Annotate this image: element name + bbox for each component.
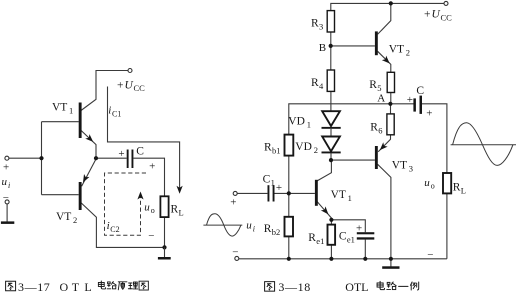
svg-text:VT: VT — [331, 189, 346, 201]
svg-text:VT: VT — [389, 44, 404, 56]
svg-text:3: 3 — [319, 22, 323, 32]
wire: RL bottom to ground node — [164, 217, 166, 247]
wire: VT1 base — [42, 121, 79, 123]
svg-text:VD: VD — [288, 115, 305, 127]
svg-text:4: 4 — [319, 81, 324, 91]
resistor R6 box — [387, 114, 394, 135]
wire: Rb1 to C1 node — [288, 156, 290, 194]
transistor VT2 emitter arrow (PNP, into bar) — [80, 174, 89, 184]
resistor R4 box — [327, 70, 334, 91]
transistor VT3 emitter arrow (PNP, into bar) — [378, 142, 388, 152]
svg-text:−: − — [427, 249, 433, 261]
wire: emitter node to Re1 — [330, 220, 332, 225]
svg-text:C: C — [416, 85, 424, 97]
svg-text:U: U — [125, 79, 134, 91]
wire: VT1r emitter — [317, 201, 332, 220]
svg-text:1: 1 — [348, 193, 352, 203]
svg-text:R: R — [311, 77, 319, 89]
svg-text:+: + — [3, 162, 9, 174]
node: B — [329, 44, 333, 48]
svg-text:i: i — [8, 181, 10, 190]
terminal: left ui + — [5, 156, 9, 160]
svg-text:u: u — [424, 177, 430, 189]
terminal: right input minus — [235, 256, 239, 260]
transistor VT1 bar — [79, 103, 82, 139]
wire: bottom rail — [239, 258, 447, 260]
svg-text:VT: VT — [392, 160, 407, 172]
resistor R3 box — [327, 11, 334, 32]
wire: cap C to RL right — [422, 104, 447, 173]
capacitor Ce1 plates — [357, 232, 375, 234]
resistor Rb1 box — [285, 135, 294, 156]
capacitor C right plates — [413, 98, 416, 111]
wire: emitter node to Ce1 — [331, 220, 365, 233]
wire: node A to R6 — [390, 104, 392, 114]
svg-text:i: i — [108, 105, 111, 117]
wire: input to C1 — [237, 192, 267, 194]
node: diode bottom junction — [329, 158, 333, 162]
svg-text:B: B — [319, 42, 326, 54]
svg-text:3: 3 — [409, 164, 413, 174]
capacitor C left: plates — [127, 150, 129, 169]
svg-text:u: u — [144, 202, 150, 214]
node: top rail junction — [389, 1, 393, 5]
svg-text:VT: VT — [52, 102, 67, 114]
svg-text:o: o — [431, 182, 435, 191]
svg-text:e1: e1 — [347, 235, 355, 245]
transistor VT2 right emitter arrow — [382, 56, 392, 66]
caption: figure 3-18 — [265, 282, 275, 292]
wire: left input to base node — [9, 157, 42, 159]
transistor VT1 emitter arrow — [85, 134, 95, 144]
svg-text:i: i — [107, 220, 110, 232]
wire: C1 node to Rb2 — [288, 193, 290, 216]
node: Ce1 rail junction — [363, 257, 367, 261]
svg-text:O: O — [60, 280, 69, 294]
wire: RL right to rail — [446, 194, 448, 259]
transistor VT2 bar — [79, 182, 82, 210]
diode VD2 — [322, 137, 340, 152]
svg-text:+: + — [356, 222, 362, 234]
resistor RL right box — [443, 173, 451, 193]
wire: VT1 collector to +Ucc rail — [81, 71, 128, 111]
svg-text:e1: e1 — [316, 236, 324, 246]
svg-text:CC: CC — [441, 12, 453, 22]
svg-text:+: + — [230, 197, 236, 209]
svg-text:R: R — [453, 182, 461, 194]
svg-text:R: R — [264, 142, 272, 154]
resistor Rb2 box — [285, 217, 294, 237]
svg-text:C: C — [136, 146, 144, 158]
transistor VT1 right bar — [315, 180, 318, 206]
transistor VT1 right emitter arrow — [321, 206, 331, 216]
wire: VT2 base — [42, 194, 79, 196]
node: emitters junction — [94, 156, 98, 160]
svg-text:+: + — [276, 182, 282, 194]
resistor R5 box — [387, 72, 394, 92]
wire: node A bus to Rb1 corner — [289, 104, 391, 135]
svg-text:+: + — [407, 94, 413, 106]
svg-text:T: T — [72, 280, 80, 294]
node: bases junction — [39, 156, 43, 160]
svg-text:2: 2 — [406, 48, 410, 58]
svg-text:i: i — [253, 225, 255, 234]
node: Re1 rail junction — [329, 257, 333, 261]
wire: bases vertical tie — [41, 122, 43, 195]
svg-text:VD: VD — [295, 141, 312, 153]
svg-text:o: o — [151, 206, 155, 215]
resistor Re1 box — [328, 225, 336, 245]
terminal: +Ucc right circle — [444, 1, 448, 5]
wire: Re1 to rail — [330, 245, 332, 259]
caption: figure 3-17 — [6, 281, 16, 291]
wire: VT2r base — [331, 45, 375, 47]
svg-text:U: U — [432, 9, 441, 21]
terminal: right input + — [233, 191, 237, 195]
svg-text:b1: b1 — [272, 146, 281, 156]
wire: R5 to node A — [390, 93, 392, 104]
ground: right circuit — [382, 266, 399, 269]
node: A — [388, 102, 392, 106]
wire: VD2 to node — [330, 153, 332, 160]
dashed loop iC2 — [105, 173, 147, 235]
svg-text:+: + — [117, 79, 124, 91]
wire: R4 to VD1 — [330, 91, 332, 111]
svg-text:OTL: OTL — [345, 280, 368, 294]
wire: VT3 collector to rail — [378, 164, 391, 258]
svg-text:C1: C1 — [112, 110, 121, 119]
svg-text:u: u — [246, 220, 252, 232]
wire: R3 bottom to node B — [330, 32, 332, 46]
wire: node A to cap C — [390, 103, 413, 105]
transistor VT3 bar — [375, 146, 378, 169]
svg-text:b2: b2 — [272, 227, 281, 237]
resistor RL left box — [160, 196, 168, 217]
node: ground junction left — [162, 245, 166, 249]
wire: VT2 collector to bottom — [81, 202, 165, 247]
wire: VT2r emitter to R5 — [378, 51, 391, 72]
ground: left circuit — [164, 247, 166, 257]
sine: right circuit output — [451, 123, 516, 166]
node: VT3 rail junction — [389, 257, 393, 261]
wire: Ce1 to rail — [364, 240, 366, 259]
node: C1 base junction — [287, 191, 291, 195]
svg-text:+: + — [426, 108, 432, 120]
wire: node B to R4 — [330, 46, 332, 70]
ground: left input — [1, 221, 14, 224]
wire: right top +Ucc rail — [331, 3, 444, 10]
wire: VT2 emitter lead — [82, 159, 96, 186]
wire: R6 to VT3 emitter — [378, 135, 390, 152]
svg-text:3—18: 3—18 — [278, 280, 310, 294]
wire: emitter node to capacitor C — [96, 157, 127, 159]
wire: VT1r collector — [317, 160, 332, 181]
svg-text:−: − — [232, 247, 238, 259]
svg-text:6: 6 — [378, 126, 382, 136]
svg-text:R: R — [308, 232, 316, 244]
svg-text:1: 1 — [69, 106, 73, 116]
wire: Rb2 to rail — [288, 237, 290, 259]
diode VD1 — [322, 111, 340, 126]
svg-text:CC: CC — [134, 83, 146, 93]
current arrow iC1 path — [108, 87, 180, 191]
wire: C1 to VT1r base — [275, 192, 315, 194]
svg-text:R: R — [370, 122, 378, 134]
svg-text:A: A — [377, 92, 385, 104]
wire: left input ground stub — [6, 204, 8, 222]
wire: capacitor C to RL top — [133, 158, 164, 196]
wire: VD1 to VD2 — [330, 129, 332, 137]
capacitor C1 plates — [268, 185, 270, 201]
wire: VT2r collector — [378, 3, 391, 34]
svg-text:−: − — [148, 230, 154, 242]
svg-text:1: 1 — [271, 177, 275, 187]
svg-text:2: 2 — [314, 145, 318, 155]
wire: VT1 emitter lead — [81, 130, 96, 158]
svg-text:R: R — [311, 18, 319, 30]
transistor VT2 right bar — [375, 31, 378, 55]
svg-text:3—17: 3—17 — [18, 280, 50, 294]
terminal: left ground circle — [5, 200, 9, 204]
svg-text:C: C — [339, 231, 347, 243]
svg-text:L: L — [84, 280, 91, 294]
svg-text:R: R — [369, 79, 377, 91]
svg-text:+: + — [149, 161, 155, 173]
svg-text:C2: C2 — [110, 225, 119, 234]
svg-text:1: 1 — [307, 119, 311, 129]
svg-text:+: + — [424, 9, 431, 21]
svg-text:R: R — [264, 223, 272, 235]
svg-text:VT: VT — [56, 211, 71, 223]
svg-text:L: L — [461, 186, 466, 196]
sine: right circuit input — [203, 214, 242, 236]
svg-text:2: 2 — [73, 215, 77, 225]
svg-text:R: R — [171, 203, 179, 215]
wire: diode node to VT3 base — [331, 159, 375, 161]
node: Rb2 rail junction — [287, 257, 291, 261]
node: VT1r emitter junction — [329, 218, 333, 222]
svg-text:+: + — [118, 148, 124, 160]
svg-text:L: L — [179, 207, 184, 217]
svg-text:C: C — [263, 173, 271, 185]
terminal: +Ucc left circle — [128, 69, 132, 73]
svg-text:u: u — [2, 176, 8, 188]
wire: right ground stub — [390, 259, 392, 267]
